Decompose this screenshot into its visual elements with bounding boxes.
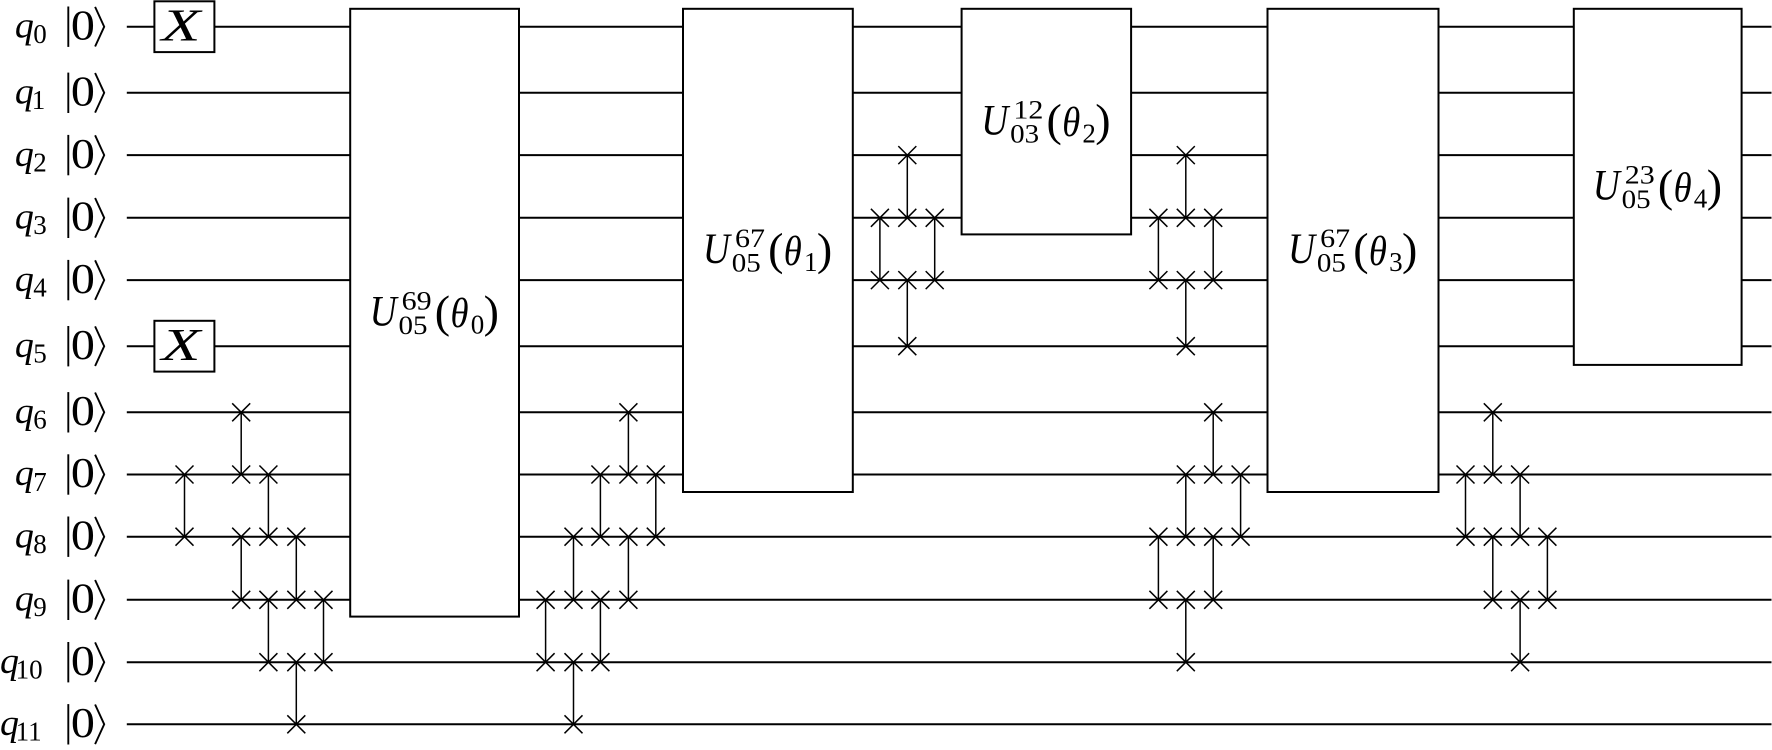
wire q9	[127, 599, 1772, 601]
swap gate q6-q7 at x=1213.2	[1204, 403, 1222, 483]
ket |0> q0	[68, 3, 104, 49]
svg-text:4: 4	[1694, 184, 1708, 214]
wire q2	[127, 154, 1772, 156]
swap gate q2-q3 at x=907.3	[898, 146, 916, 227]
X gate on q0	[154, 0, 214, 52]
svg-text:θ: θ	[1369, 229, 1387, 275]
qubit label q5	[15, 325, 47, 369]
svg-text:q: q	[15, 5, 34, 46]
swap gate q8-q9 at x=1547.4	[1538, 528, 1556, 609]
swap gate q9-q10 at x=323.5	[315, 591, 333, 671]
svg-text:7: 7	[33, 467, 47, 497]
svg-text:4: 4	[33, 272, 47, 302]
svg-text:1: 1	[32, 85, 46, 115]
swap gate q8-q9 at x=241.2	[232, 528, 250, 609]
qubit label q8	[15, 515, 47, 559]
svg-text:(: (	[1047, 95, 1062, 146]
swap gate q9-q10 at x=268.4	[259, 591, 277, 671]
qubit label q4	[15, 259, 47, 303]
swap gate q8-q9 at x=1213.2	[1204, 528, 1222, 609]
svg-text:5: 5	[33, 339, 47, 369]
svg-text:6: 6	[33, 405, 47, 435]
wire q0	[127, 26, 1772, 28]
svg-text:10: 10	[16, 655, 43, 685]
ket |0> q8	[68, 513, 104, 559]
swap gate q9-q10 at x=1520.1	[1511, 591, 1529, 671]
swap gate q4-q5 at x=907.3	[898, 271, 916, 355]
swap gate q6-q7 at x=241.2	[232, 403, 250, 483]
svg-text:θ: θ	[451, 291, 469, 337]
svg-text:05: 05	[1622, 185, 1651, 214]
svg-text:0: 0	[71, 132, 95, 178]
svg-text:): )	[1095, 95, 1110, 146]
svg-text:q: q	[15, 579, 34, 620]
svg-text:2: 2	[33, 147, 47, 177]
svg-text:0: 0	[71, 513, 95, 559]
swap gate q7-q8 at x=600.4	[591, 466, 609, 546]
swap gate q8-q9 at x=628.4	[619, 528, 637, 609]
wire q11	[127, 723, 1772, 725]
svg-text:q: q	[15, 134, 34, 175]
wire q4	[127, 279, 1772, 281]
svg-text:0: 0	[71, 701, 95, 745]
svg-text:1: 1	[804, 247, 818, 277]
svg-text:U: U	[703, 226, 733, 273]
svg-text:q: q	[15, 197, 34, 238]
svg-text:q: q	[15, 259, 34, 300]
qubit label q10	[0, 641, 43, 685]
qubit label q7	[15, 453, 47, 497]
svg-text:0: 0	[33, 19, 47, 49]
wire q8	[127, 536, 1772, 538]
ket |0> q1	[68, 70, 104, 116]
ket |0> q3	[68, 195, 104, 241]
ket |0> q9	[68, 577, 104, 623]
ket |0> q4	[68, 257, 104, 303]
unitary box U3: U_05^67(theta_3)	[1268, 9, 1439, 492]
svg-text:03: 03	[1010, 120, 1039, 149]
svg-text:X: X	[159, 0, 203, 51]
svg-text:8: 8	[33, 529, 47, 559]
svg-text:05: 05	[732, 249, 761, 278]
ket |0> q10	[68, 639, 104, 685]
unitary box U4: U_05^23(theta_4)	[1574, 9, 1742, 365]
wire q7	[127, 474, 1772, 476]
svg-text:0: 0	[71, 577, 95, 623]
qubit label q11	[0, 703, 42, 747]
svg-text:0: 0	[71, 3, 95, 49]
svg-text:2: 2	[1082, 118, 1096, 148]
swap gate q7-q8 at x=1185.8	[1177, 466, 1195, 546]
wire q10	[127, 661, 1772, 663]
swap gate q8-q9 at x=1158.4	[1149, 528, 1167, 609]
svg-text:): )	[817, 224, 832, 275]
svg-text:θ: θ	[1674, 165, 1692, 211]
swap gate q7-q8 at x=268.4	[259, 466, 277, 546]
unitary box U0: U_05^69(theta_0)	[350, 9, 519, 617]
svg-text:11: 11	[16, 717, 42, 745]
wire q6	[127, 411, 1772, 413]
svg-text:U: U	[981, 97, 1011, 144]
svg-text:9: 9	[33, 592, 47, 622]
swap gate q7-q8 at x=1240.6	[1232, 466, 1250, 546]
qubit label q1	[15, 72, 45, 116]
ket |0> q6	[68, 389, 104, 435]
wire q3	[127, 217, 1772, 219]
wire q1	[127, 92, 1772, 94]
swap gate q10-q11 at x=573.5	[565, 653, 583, 733]
svg-text:05: 05	[1317, 249, 1346, 278]
svg-text:q: q	[15, 325, 34, 366]
swap gate q7-q8 at x=184.5	[176, 466, 194, 546]
swap gate q3-q4 at x=1213.2	[1204, 209, 1222, 289]
unitary box U1: U_05^67(theta_1)	[683, 9, 853, 492]
svg-text:U: U	[1593, 163, 1623, 210]
svg-text:05: 05	[399, 311, 428, 340]
svg-text:θ: θ	[1062, 100, 1080, 146]
svg-text:θ: θ	[784, 229, 802, 275]
swap gate q7-q8 at x=655.8	[647, 466, 665, 546]
ket |0> q2	[68, 132, 104, 178]
swap gate q2-q3 at x=1185.8	[1177, 146, 1195, 227]
svg-text:0: 0	[71, 323, 95, 369]
swap gate q8-q9 at x=1492.8	[1484, 528, 1502, 609]
qubit label q3	[15, 197, 47, 241]
swap gate q3-q4 at x=934.7	[926, 209, 944, 289]
swap gate q6-q7 at x=1492.8	[1484, 403, 1502, 483]
swap gate q8-q9 at x=296.3	[287, 528, 305, 609]
svg-text:q: q	[15, 515, 34, 556]
ket |0> q7	[68, 451, 104, 497]
svg-text:0: 0	[71, 195, 95, 241]
svg-text:): )	[1707, 160, 1722, 211]
svg-text:q: q	[15, 453, 34, 494]
svg-text:0: 0	[71, 257, 95, 303]
swap gate q3-q4 at x=1158.4	[1149, 209, 1167, 289]
svg-text:): )	[1402, 224, 1417, 275]
X gate on q5	[154, 319, 214, 372]
swap gate q4-q5 at x=1185.8	[1177, 271, 1195, 355]
ket |0> q11	[68, 701, 104, 747]
qubit label q0	[15, 5, 47, 49]
svg-text:0: 0	[71, 639, 95, 685]
svg-text:(: (	[1658, 160, 1673, 211]
swap gate q6-q7 at x=628.4	[619, 403, 637, 483]
svg-text:0: 0	[71, 70, 95, 116]
svg-text:U: U	[370, 289, 400, 336]
unitary box U2: U_03^12(theta_2)	[962, 9, 1132, 235]
svg-text:q: q	[15, 391, 34, 432]
svg-text:X: X	[159, 319, 203, 370]
svg-text:3: 3	[1389, 247, 1403, 277]
qubit label q2	[15, 134, 47, 178]
swap gate q9-q10 at x=600.4	[591, 591, 609, 671]
swap gate q7-q8 at x=1520.1	[1511, 466, 1529, 546]
qubit label q9	[15, 579, 47, 623]
svg-text:): )	[484, 286, 499, 337]
swap gate q10-q11 at x=296.3	[287, 653, 305, 733]
swap gate q7-q8 at x=1465.5	[1457, 466, 1475, 546]
wire q5	[127, 345, 1772, 347]
svg-text:0: 0	[71, 389, 95, 435]
qubit label q6	[15, 391, 47, 435]
swap gate q9-q10 at x=1185.8	[1177, 591, 1195, 671]
svg-text:(: (	[1353, 224, 1368, 275]
swap gate q3-q4 at x=879.9	[871, 209, 889, 289]
svg-text:(: (	[435, 286, 450, 337]
svg-text:0: 0	[71, 451, 95, 497]
ket |0> q5	[68, 323, 104, 369]
svg-text:(: (	[768, 224, 783, 275]
swap gate q8-q9 at x=573.5	[565, 528, 583, 609]
swap gate q9-q10 at x=545.6	[537, 591, 555, 671]
svg-text:0: 0	[471, 309, 485, 339]
svg-text:U: U	[1288, 226, 1318, 273]
svg-text:3: 3	[33, 210, 47, 240]
